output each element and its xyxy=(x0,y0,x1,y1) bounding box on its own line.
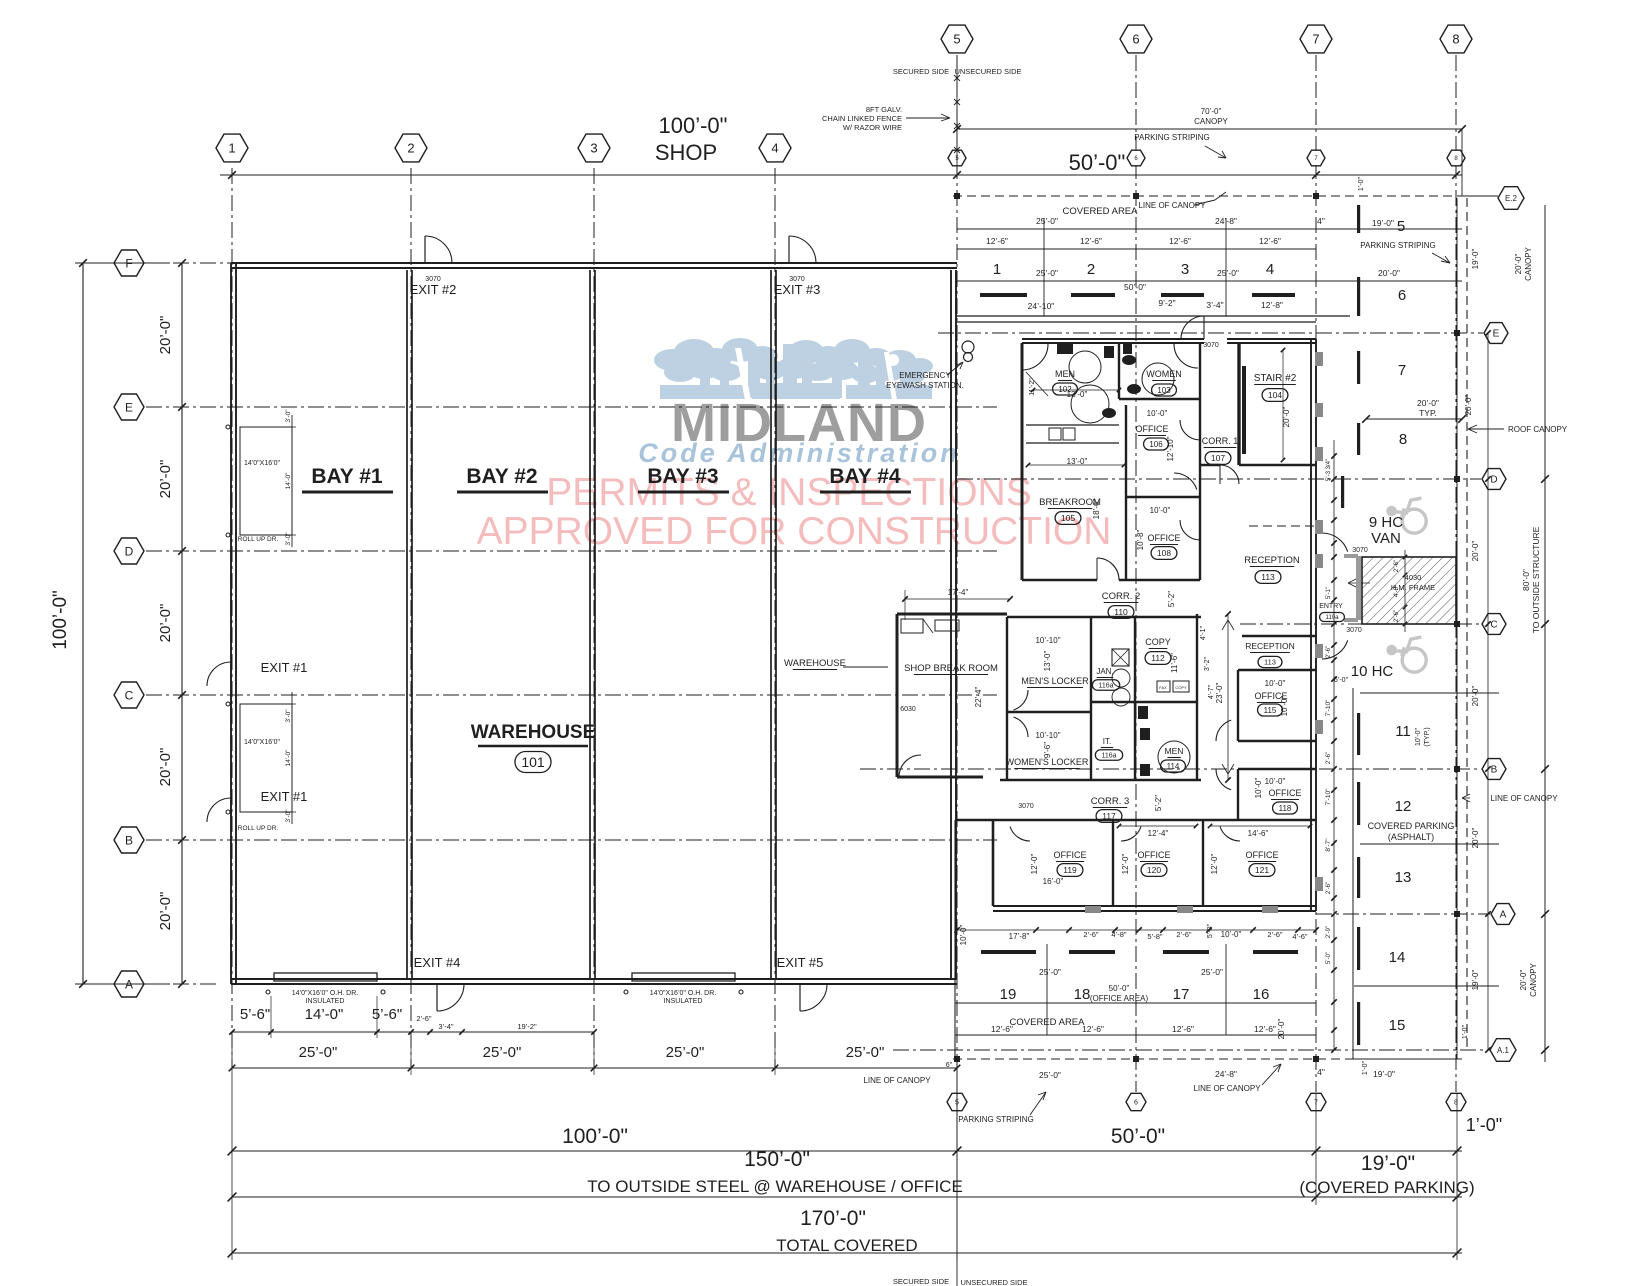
top parking line y249 xyxy=(957,248,1316,250)
svg-text:16: 16 xyxy=(1253,986,1270,1003)
office 115 door xyxy=(1216,720,1231,741)
break counter xyxy=(901,619,923,633)
svg-text:10’-0": 10’-0" xyxy=(1150,506,1171,515)
restroom fixtures men 102 xyxy=(1057,344,1073,354)
bottom extension verticals xyxy=(231,1035,233,1260)
svg-text:RECEPTION: RECEPTION xyxy=(1245,641,1295,651)
svg-text:OFFICE: OFFICE xyxy=(1269,788,1302,798)
svg-text:4: 4 xyxy=(1266,261,1274,278)
svg-text:2’-9": 2’-9" xyxy=(1326,926,1332,938)
svg-text:6030: 6030 xyxy=(900,706,916,713)
grid bubble A xyxy=(114,971,144,997)
wall office106-108 divider xyxy=(1126,496,1200,498)
svg-text:IT.: IT. xyxy=(1103,737,1111,746)
svg-text:106: 106 xyxy=(1149,440,1163,449)
jan copy south wall xyxy=(1091,701,1197,703)
svg-text:5: 5 xyxy=(1397,218,1405,235)
exit #5 door xyxy=(800,984,827,1011)
svg-text:101: 101 xyxy=(521,754,545,770)
roll up door 2 xyxy=(240,704,292,812)
svg-text:LINE OF CANOPY: LINE OF CANOPY xyxy=(1138,201,1206,210)
svg-text:SHOP BREAK ROOM: SHOP BREAK ROOM xyxy=(904,663,998,674)
svg-text:11: 11 xyxy=(1395,723,1411,740)
svg-text:7’-10": 7’-10" xyxy=(1325,699,1332,716)
svg-text:WAREHOUSE: WAREHOUSE xyxy=(784,658,846,669)
svg-text:10’-0": 10’-0" xyxy=(1265,777,1286,786)
svg-text:12: 12 xyxy=(1395,798,1412,815)
right parking stripes lower xyxy=(1357,713,1360,755)
svg-text:110: 110 xyxy=(1114,607,1128,617)
small grid bubble 6 mid xyxy=(1127,150,1145,166)
canopy dashed line top xyxy=(953,195,1462,197)
svg-text:25’-0": 25’-0" xyxy=(1039,1070,1061,1080)
svg-text:115: 115 xyxy=(1264,706,1277,715)
svg-text:23’-0": 23’-0" xyxy=(1215,683,1224,704)
svg-text:12’-6": 12’-6" xyxy=(986,236,1008,246)
svg-text:2’-6": 2’-6" xyxy=(1176,930,1192,939)
bottom stall divider 19-18 xyxy=(1046,944,1048,1035)
men room dim line xyxy=(1033,389,1119,391)
svg-text:3’-0": 3’-0" xyxy=(285,709,292,723)
svg-text:16’-0": 16’-0" xyxy=(1043,877,1064,886)
svg-text:BAY #3: BAY #3 xyxy=(647,465,718,488)
svg-text:ENTRY: ENTRY xyxy=(1319,603,1343,610)
wall men-women divider xyxy=(1118,343,1120,399)
svg-text:50’-0": 50’-0" xyxy=(1109,984,1130,993)
office 120 door xyxy=(1121,827,1141,842)
reception ceiling dashed line xyxy=(1249,525,1316,527)
svg-text:OFFICE: OFFICE xyxy=(1136,424,1169,434)
svg-text:BAY #4: BAY #4 xyxy=(829,465,901,488)
svg-text:24’-10": 24’-10" xyxy=(1028,301,1055,311)
bottom line y1035 xyxy=(955,1034,1316,1036)
svg-text:4": 4" xyxy=(1317,216,1325,226)
warehouse col5 wall xyxy=(950,270,952,979)
svg-text:20’-0": 20’-0" xyxy=(1464,395,1473,416)
svg-text:COPY: COPY xyxy=(1145,637,1171,647)
svg-text:8’-7": 8’-7" xyxy=(1325,838,1332,852)
svg-text:OFFICE: OFFICE xyxy=(1138,850,1171,860)
svg-text:JAN.: JAN. xyxy=(1096,667,1113,676)
svg-text:1’-0": 1’-0" xyxy=(1462,1024,1469,1039)
svg-text:14’0"X16’0": 14’0"X16’0" xyxy=(244,460,281,467)
right grid bubble B xyxy=(1482,759,1506,780)
svg-text:50’-0": 50’-0" xyxy=(1124,282,1146,292)
svg-text:OFFICE: OFFICE xyxy=(1246,850,1279,860)
svg-text:RECEPTION: RECEPTION xyxy=(1244,555,1300,566)
right grid bubble C xyxy=(1482,614,1506,635)
grid row A line xyxy=(146,983,220,985)
svg-text:CORR. 3: CORR. 3 xyxy=(1091,796,1130,807)
breakroom door xyxy=(1097,558,1119,580)
svg-text:3: 3 xyxy=(590,141,597,156)
svg-text:7: 7 xyxy=(1398,362,1406,379)
grid line column 2 xyxy=(410,168,412,1068)
svg-text:5’-2": 5’-2" xyxy=(1154,795,1163,811)
svg-text:CORR. 2: CORR. 2 xyxy=(1102,591,1141,602)
svg-text:12’-6": 12’-6" xyxy=(1080,236,1102,246)
svg-text:CHAIN LINKED FENCE: CHAIN LINKED FENCE xyxy=(822,114,902,123)
right grid row B line xyxy=(860,768,1481,770)
svg-text:10’-10": 10’-10" xyxy=(1035,636,1060,645)
svg-text:100’-0": 100’-0" xyxy=(659,113,728,138)
canopy 70 ft dimension xyxy=(957,128,1462,130)
svg-text:EYEWASH STATION.: EYEWASH STATION. xyxy=(886,381,964,390)
HC wheelchair symbol 2 xyxy=(1385,632,1430,674)
breakroom dim line xyxy=(1028,464,1124,466)
office118 north wall xyxy=(1238,768,1316,770)
svg-text:10’-0": 10’-0" xyxy=(959,925,968,946)
dim line y1151 xyxy=(232,1150,1462,1152)
svg-text:4: 4 xyxy=(771,141,778,156)
svg-text:8: 8 xyxy=(1454,1100,1458,1107)
svg-text:25’-0": 25’-0" xyxy=(483,1044,522,1061)
svg-text:12’-6": 12’-6" xyxy=(1254,1024,1276,1034)
right grid bubble E xyxy=(1484,323,1508,344)
svg-text:EXIT #5: EXIT #5 xyxy=(777,955,824,970)
svg-text:12’-8": 12’-8" xyxy=(1261,300,1283,310)
svg-text:3: 3 xyxy=(1181,261,1189,278)
men114 west wall xyxy=(1134,702,1136,780)
svg-text:E.2: E.2 xyxy=(1505,194,1518,203)
svg-text:10 HC: 10 HC xyxy=(1351,663,1394,680)
svg-text:116a: 116a xyxy=(1101,753,1116,760)
stall striping bars top xyxy=(980,293,1027,297)
svg-text:MEN: MEN xyxy=(1055,369,1075,379)
svg-text:3’-4": 3’-4" xyxy=(1206,300,1223,310)
small grid bubble 5 mid xyxy=(948,150,966,166)
svg-text:112: 112 xyxy=(1151,653,1165,663)
svg-text:19’-0": 19’-0" xyxy=(1471,970,1480,991)
grid bubble D xyxy=(114,538,144,564)
svg-text:12’-6": 12’-6" xyxy=(1082,1024,1104,1034)
svg-text:TOTAL COVERED: TOTAL COVERED xyxy=(776,1236,917,1255)
svg-text:24’-8": 24’-8" xyxy=(1215,1069,1237,1079)
left 20 ft dimension chain xyxy=(181,263,183,984)
svg-text:3070: 3070 xyxy=(1203,342,1219,349)
top stall divider 3-4 xyxy=(1225,218,1227,316)
bottom small bubble 8 xyxy=(1446,1093,1466,1110)
svg-text:(ASPHALT): (ASPHALT) xyxy=(1388,832,1434,842)
warehouse left wall xyxy=(230,263,232,984)
window marks right wall xyxy=(1315,352,1323,366)
canopy walk edge xyxy=(957,315,1350,317)
svg-text:18’-6": 18’-6" xyxy=(1092,499,1101,520)
svg-text:EXIT #2: EXIT #2 xyxy=(410,282,457,297)
exit #2 door xyxy=(425,236,452,263)
small grid bubble 8 mid xyxy=(1447,150,1465,166)
bottom line y1003 xyxy=(955,1002,1316,1004)
shop break room door xyxy=(899,755,921,777)
svg-text:105: 105 xyxy=(1061,513,1075,523)
svg-text:4’-6": 4’-6" xyxy=(1292,932,1308,941)
svg-text:4": 4" xyxy=(1317,1067,1325,1077)
svg-text:14’0"X16’0": 14’0"X16’0" xyxy=(244,739,281,746)
wall restroom counter xyxy=(1026,424,1119,426)
shop break room west wall xyxy=(896,614,899,777)
svg-text:19’-0": 19’-0" xyxy=(1373,1069,1395,1079)
svg-text:ROLL UP DR.: ROLL UP DR. xyxy=(238,536,279,543)
svg-text:OFFICE: OFFICE xyxy=(1148,533,1181,543)
svg-text:80’-0": 80’-0" xyxy=(1521,569,1531,591)
locker west wall xyxy=(1006,617,1008,780)
svg-text:25’-0": 25’-0" xyxy=(1039,967,1061,977)
grid bubble F xyxy=(114,250,144,276)
svg-text:19: 19 xyxy=(1000,986,1017,1003)
grid line column 5 xyxy=(956,55,958,1092)
office 23ft dim arrows xyxy=(1222,620,1228,630)
svg-text:14’0"X16’0" O.H. DR.: 14’0"X16’0" O.H. DR. xyxy=(292,990,358,997)
svg-text:20’-0": 20’-0" xyxy=(157,316,174,355)
reception lobby walls xyxy=(1242,635,1316,637)
fence line bottom xyxy=(956,1059,958,1286)
svg-text:7: 7 xyxy=(1312,32,1319,47)
grid row E line xyxy=(146,406,997,408)
svg-text:20’-0": 20’-0" xyxy=(1417,398,1439,408)
office 108 door xyxy=(1180,520,1200,540)
far right dim line xyxy=(1487,333,1489,1050)
grid bubble 6 xyxy=(1120,25,1152,53)
O.H. door 2 bottom xyxy=(632,973,735,981)
svg-text:120: 120 xyxy=(1147,865,1161,875)
svg-text:12’-6": 12’-6" xyxy=(1169,236,1191,246)
svg-text:121: 121 xyxy=(1255,865,1269,875)
svg-text:12’-6": 12’-6" xyxy=(991,1024,1013,1034)
svg-text:1’-0": 1’-0" xyxy=(1466,1115,1502,1135)
HC wheelchair symbol 1 xyxy=(1385,493,1430,535)
warehouse bottom wall xyxy=(231,978,957,980)
svg-text:TYP.: TYP. xyxy=(1419,408,1437,418)
locker divider wall xyxy=(1007,711,1091,713)
right grid row D line xyxy=(957,478,1481,480)
top parking line y229 xyxy=(957,228,1462,230)
men 102 entry door arc xyxy=(1022,344,1048,370)
svg-text:5’-2": 5’-2" xyxy=(1167,591,1176,607)
svg-text:6: 6 xyxy=(1134,1100,1138,1107)
office bottom wall xyxy=(993,905,1316,907)
roll up door 1 xyxy=(240,427,292,535)
svg-text:6: 6 xyxy=(1132,32,1139,47)
grid bubble 3 xyxy=(578,134,610,162)
svg-text:119: 119 xyxy=(1063,865,1077,875)
grid bubble 2 xyxy=(395,134,427,162)
svg-text:20’-0": 20’-0" xyxy=(157,748,174,787)
O.H. door 1 bottom xyxy=(274,973,377,981)
office top wall left segment xyxy=(1022,338,1204,340)
stair door xyxy=(1220,465,1239,484)
office115 south wall xyxy=(1238,740,1316,742)
svg-text:2’-6": 2’-6" xyxy=(1083,930,1099,939)
svg-text:5’-6": 5’-6" xyxy=(240,1006,270,1023)
svg-text:11’-6": 11’-6" xyxy=(1170,653,1179,673)
jan-it east wall xyxy=(1134,617,1136,704)
canopy dashed line bottom xyxy=(953,1058,1462,1060)
svg-text:E: E xyxy=(1493,329,1500,340)
dim line y1253 xyxy=(232,1252,1462,1254)
svg-text:C: C xyxy=(125,688,134,702)
womens locker door xyxy=(1014,717,1029,737)
wall corr1 west xyxy=(1199,343,1201,580)
svg-text:20’-0": 20’-0" xyxy=(1277,1019,1286,1040)
corr1 reception door xyxy=(1174,473,1197,490)
svg-text:9 HC: 9 HC xyxy=(1369,514,1403,531)
svg-text:C: C xyxy=(1490,620,1497,631)
svg-text:FAX: FAX xyxy=(1159,685,1167,690)
wall breakroom east xyxy=(1125,405,1127,580)
svg-text:INSULATED: INSULATED xyxy=(306,998,345,1005)
wall stair south xyxy=(1200,464,1220,466)
svg-text:5’-6": 5’-6" xyxy=(372,1006,402,1023)
svg-text:13’-0": 13’-0" xyxy=(1067,390,1088,399)
svg-text:VAN: VAN xyxy=(1371,530,1401,547)
women 103 entry door arc xyxy=(1174,344,1198,368)
svg-text:1’-0": 1’-0" xyxy=(1358,176,1365,191)
dim line y1197 xyxy=(232,1196,1462,1198)
svg-text:110a: 110a xyxy=(1326,615,1340,621)
svg-text:11’-2": 11’-2" xyxy=(1029,378,1036,396)
svg-text:14’-0": 14’-0" xyxy=(285,472,292,489)
locker east wall xyxy=(1090,617,1092,780)
grid row D line xyxy=(146,550,997,552)
svg-text:CANOPY: CANOPY xyxy=(1529,962,1538,996)
svg-text:118: 118 xyxy=(1279,804,1292,813)
office top wall right segment xyxy=(1227,338,1316,340)
svg-text:WAREHOUSE: WAREHOUSE xyxy=(471,722,596,743)
bottom stall divider 17-16 xyxy=(1225,944,1227,1035)
svg-text:UNSECURED SIDE: UNSECURED SIDE xyxy=(960,1278,1027,1286)
svg-text:SHOP: SHOP xyxy=(655,140,717,165)
grid bubble 4 xyxy=(759,134,791,162)
svg-text:2’-6": 2’-6" xyxy=(1326,646,1332,658)
svg-text:UNSECURED SIDE: UNSECURED SIDE xyxy=(954,67,1021,76)
svg-text:20’-0": 20’-0" xyxy=(157,460,174,499)
right grid bubble D xyxy=(1482,469,1506,490)
svg-text:20’-0": 20’-0" xyxy=(1378,268,1400,278)
svg-text:PARKING STRIPING: PARKING STRIPING xyxy=(1360,241,1435,250)
svg-text:MEN: MEN xyxy=(1165,746,1184,756)
grid line column 6 xyxy=(1135,55,1137,1092)
svg-text:103: 103 xyxy=(1157,386,1171,395)
svg-text:E: E xyxy=(125,400,133,414)
covered parking west edge line xyxy=(1352,688,1354,1059)
hatch interior dim line xyxy=(1404,550,1406,632)
dim ext office 120 121 xyxy=(1119,825,1196,827)
svg-text:4030: 4030 xyxy=(1405,573,1422,582)
office entry top door xyxy=(1181,316,1204,339)
corr3 south wall offices north xyxy=(993,819,1316,821)
left 100 ft dimension xyxy=(82,263,84,984)
entry door arcs xyxy=(1322,533,1348,552)
svg-text:TO OUTSIDE STRUCTURE: TO OUTSIDE STRUCTURE xyxy=(1531,526,1541,633)
svg-text:SECURED SIDE: SECURED SIDE xyxy=(893,1277,949,1286)
svg-text:10’-0": 10’-0" xyxy=(1254,778,1263,799)
exit #1 lower door xyxy=(207,798,231,822)
svg-text:3070: 3070 xyxy=(1352,547,1368,554)
svg-text:2’-6": 2’-6" xyxy=(416,1014,432,1023)
svg-text:MEN'S LOCKER: MEN'S LOCKER xyxy=(1021,676,1089,686)
svg-text:20’-0": 20’-0" xyxy=(1471,686,1480,707)
wall women south xyxy=(1119,398,1200,400)
wall corr2 south xyxy=(1007,616,1201,618)
svg-text:5’-0": 5’-0" xyxy=(1326,952,1332,964)
svg-text:6: 6 xyxy=(1398,287,1406,304)
office 121 door xyxy=(1220,827,1240,842)
top stall divider 1-2 xyxy=(1043,218,1045,316)
warehouse top wall xyxy=(231,262,957,264)
svg-text:19’-2": 19’-2" xyxy=(517,1022,537,1031)
office 17-4 dim line xyxy=(905,598,1010,600)
svg-text:12’-6": 12’-6" xyxy=(1172,1024,1194,1034)
svg-text:D: D xyxy=(125,544,134,558)
svg-text:20’-0": 20’-0" xyxy=(1471,541,1480,562)
entry door frame gray xyxy=(1356,556,1361,620)
floor drain jan xyxy=(1112,649,1129,666)
svg-text:2’-6": 2’-6" xyxy=(1394,560,1400,572)
svg-text:APPROVED FOR CONSTRUCTION: APPROVED FOR CONSTRUCTION xyxy=(477,510,1112,553)
svg-text:2’-6": 2’-6" xyxy=(1394,610,1400,622)
stall striping bars bottom xyxy=(981,950,1036,954)
svg-text:W/ RAZOR WIRE: W/ RAZOR WIRE xyxy=(843,123,902,132)
office west wall upper xyxy=(1021,343,1024,580)
svg-text:WOMEN: WOMEN xyxy=(1146,369,1182,379)
svg-text:4’-1": 4’-1" xyxy=(1200,625,1207,640)
svg-text:5: 5 xyxy=(953,32,960,47)
bottom small bubble 7 xyxy=(1306,1093,1326,1110)
stair dark band xyxy=(1242,366,1246,454)
office 23ft dim line xyxy=(1227,614,1229,780)
svg-text:13’-0": 13’-0" xyxy=(1043,651,1052,672)
window marks south wall xyxy=(1085,906,1101,913)
right stall divider lines xyxy=(1360,692,1499,694)
grid bubble 1 xyxy=(216,134,248,162)
restroom fixtures women 103 xyxy=(1142,363,1174,395)
exit #1 upper door xyxy=(207,662,231,686)
grid bubble C xyxy=(114,682,144,708)
small grid bubble 7 mid xyxy=(1307,150,1325,166)
svg-text:(COVERED PARKING): (COVERED PARKING) xyxy=(1299,1178,1474,1197)
svg-text:14’-6": 14’-6" xyxy=(1248,829,1269,838)
svg-text:113: 113 xyxy=(1261,572,1275,582)
svg-text:117: 117 xyxy=(1102,811,1116,821)
svg-text:170’-0": 170’-0" xyxy=(800,1207,866,1230)
right canopy edge solid xyxy=(1456,198,1458,1059)
bottom small bubble 6 xyxy=(1126,1093,1146,1110)
svg-text:9’-2": 9’-2" xyxy=(1158,298,1175,308)
svg-text:10’-0": 10’-0" xyxy=(1221,930,1242,939)
svg-text:20’-0": 20’-0" xyxy=(1471,828,1480,849)
svg-text:10’-10": 10’-10" xyxy=(1035,731,1060,740)
svg-text:108: 108 xyxy=(1157,548,1171,558)
svg-text:CORR. 1: CORR. 1 xyxy=(1202,436,1239,446)
svg-text:2’-6": 2’-6" xyxy=(1326,882,1332,894)
men room shower diagonal xyxy=(1026,372,1048,396)
svg-text:19’-0": 19’-0" xyxy=(1372,218,1394,228)
svg-text:20’-0": 20’-0" xyxy=(1519,970,1528,991)
svg-text:18: 18 xyxy=(1074,986,1091,1003)
svg-text:50’-0": 50’-0" xyxy=(1069,150,1126,175)
svg-text:113: 113 xyxy=(1264,658,1276,667)
svg-text:3070: 3070 xyxy=(1018,803,1034,810)
svg-text:50’-0": 50’-0" xyxy=(1111,1125,1165,1148)
svg-text:COVERED AREA: COVERED AREA xyxy=(1063,206,1139,217)
svg-text:19’-0": 19’-0" xyxy=(1361,1152,1415,1175)
svg-text:116a: 116a xyxy=(1098,683,1113,690)
bottom dim line y930 xyxy=(957,929,1316,931)
svg-text:D: D xyxy=(1490,475,1497,486)
svg-text:COVERED PARKING: COVERED PARKING xyxy=(1368,821,1455,831)
svg-text:14’-0": 14’-0" xyxy=(285,749,292,766)
svg-text:100’-0": 100’-0" xyxy=(562,1125,628,1148)
